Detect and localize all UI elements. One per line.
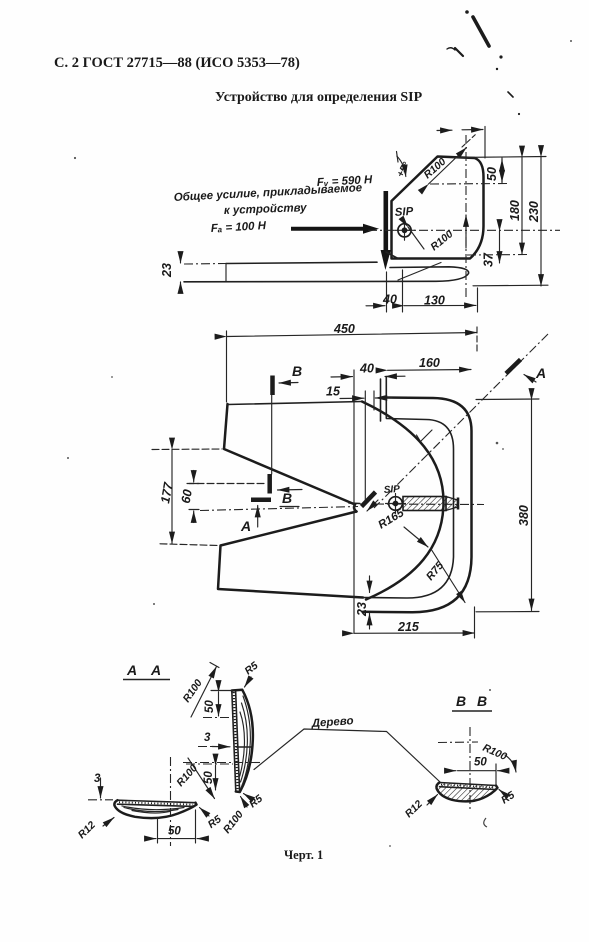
svg-text:В: В (477, 693, 487, 709)
dimension 215 (354, 620, 475, 634)
Derevo leader lines (254, 729, 440, 782)
svg-text:50: 50 (474, 757, 487, 769)
380 top extension (476, 398, 539, 401)
section A trace thick bar (top right) (506, 360, 521, 374)
svg-text:А: А (150, 662, 161, 678)
svg-text:Устройство для определения SIP: Устройство для определения SIP (215, 90, 423, 105)
svg-text:A: A (240, 518, 251, 534)
seat plate bottom edge (184, 267, 469, 282)
dimension 23 (plan) (355, 576, 370, 629)
215 right extension (474, 607, 476, 638)
extension verticals for 40/130 (386, 272, 388, 312)
force bar foot (386, 252, 398, 259)
extension dash y=255 (467, 254, 528, 257)
section B arrow bottom (278, 489, 303, 492)
svg-text:215: 215 (397, 620, 420, 634)
177 extension dashes (152, 448, 222, 451)
+5 degree tick (397, 152, 399, 163)
svg-text:23: 23 (160, 263, 174, 278)
R100 upper radius line (429, 148, 467, 185)
450 left extension (226, 331, 228, 402)
dimension 180 (508, 158, 522, 255)
svg-text:40: 40 (382, 293, 397, 307)
SIP symbol (plan) (386, 494, 406, 514)
dimension 50 lower (A-A) (203, 766, 216, 791)
svg-text:SIP: SIP (383, 484, 400, 496)
arrow at trace end near SIP (367, 500, 378, 511)
R75 leader arrow (431, 549, 465, 603)
svg-text:130: 130 (424, 294, 445, 308)
section A-A trace dash-dot diagonal (374, 334, 548, 508)
R165 leader arrow (404, 527, 428, 547)
section A arrow left (up) (257, 506, 259, 528)
R165 front arc (362, 402, 444, 600)
dimension 15 (plan) (326, 385, 392, 399)
extension vertical x=374 (373, 391, 375, 410)
svg-text:160: 160 (419, 356, 440, 370)
dimension 130 (404, 304, 476, 306)
svg-text:А: А (535, 365, 546, 381)
dimension 60 (179, 471, 199, 523)
dimension 23 (plate thickness) (160, 252, 181, 293)
section B thick bar top (270, 376, 275, 396)
hatched pad (403, 497, 458, 511)
extension vertical x=365.3 (364, 391, 366, 500)
svg-text:В: В (292, 363, 302, 379)
section A view arrow (top right) (524, 375, 536, 383)
dimension 40 (plan) (331, 362, 405, 378)
R100 radius line lower-left (A-A) (188, 758, 215, 799)
construction lines (B-B) (469, 727, 471, 812)
force bar arrowhead down (381, 250, 391, 270)
centre line through SIP (side view) (368, 229, 560, 231)
seat lens section (A-A) (114, 800, 196, 818)
svg-text:50: 50 (203, 771, 215, 784)
notch tick (349, 502, 360, 505)
check tick on trace (417, 430, 433, 442)
+5 degree arc with arrow (397, 156, 406, 177)
backrest outline (392, 157, 484, 259)
dimension 50 (B-B) (445, 757, 507, 771)
small up arrow on centre line (465, 215, 467, 248)
dimension 50 (top drawing) (485, 158, 502, 184)
svg-text:380: 380 (517, 505, 531, 526)
section B thick bar bottom (267, 474, 272, 494)
50 upper extensions (211, 690, 232, 692)
svg-text:180: 180 (508, 200, 522, 221)
section A trace thick bar near SIP (362, 492, 376, 507)
dimension 230 (527, 157, 541, 286)
unlabeled arrows above top edge (437, 129, 452, 131)
R100 radius line upper (A-A) (191, 667, 217, 718)
SIP symbol (side view) (395, 220, 415, 240)
450 right extension (476, 327, 478, 352)
V notch tip (354, 505, 356, 512)
plan top edge left part (228, 402, 363, 405)
scan artifact diagonal top right (447, 10, 520, 115)
dimension 177 (158, 450, 176, 544)
seat plate top edge (226, 262, 377, 263)
60 extension dash top (187, 483, 267, 485)
svg-text:А: А (126, 662, 137, 678)
svg-text:В: В (456, 693, 466, 709)
svg-text:SIP: SIP (394, 206, 414, 219)
horizontal dash-dot through SIP (plan) (200, 507, 358, 511)
R100 arc arrow (B-B) (505, 755, 516, 772)
plan outline left lower edge (218, 512, 363, 598)
svg-text:450: 450 (333, 322, 355, 336)
dimension 50 upper (A-A) (204, 692, 219, 716)
long extension vertical x=354 (353, 370, 355, 633)
svg-text:50: 50 (485, 167, 499, 181)
force bar Fv vertical (383, 191, 388, 251)
dimension 160 (388, 356, 472, 370)
svg-text:Черт. 1: Черт. 1 (284, 848, 323, 862)
extension dashed line y=184 (430, 183, 508, 186)
svg-text:230: 230 (527, 201, 541, 223)
section B trace line (271, 395, 273, 474)
section B arrow top (279, 382, 298, 385)
outer bottom edge right (363, 398, 472, 613)
380 bottom extension (476, 611, 539, 613)
seat plate left end (225, 264, 227, 282)
seat plate top edge extension dash (184, 263, 226, 266)
dimension 37 (482, 231, 500, 267)
force arrow Fa horizontal (291, 227, 364, 231)
svg-text:В: В (282, 490, 292, 506)
vertical centre dash line x=466 (465, 135, 467, 299)
right side extension line top (453, 157, 546, 158)
svg-text:60: 60 (179, 488, 195, 504)
inner bottom edge right (363, 419, 454, 599)
extension line y=285.5 (473, 284, 548, 287)
dimension 40 (top drawing) (366, 305, 385, 307)
backrest lens section (A-A) (232, 690, 253, 792)
svg-text:50: 50 (168, 826, 181, 838)
dimension 450 (227, 322, 478, 337)
R100 extension dashes above corner (462, 134, 476, 147)
plan outline left upper edge (224, 404, 355, 505)
svg-text:40: 40 (359, 362, 374, 376)
svg-text:23: 23 (355, 602, 369, 617)
svg-text:50: 50 (204, 700, 216, 713)
svg-text:15: 15 (326, 385, 341, 399)
section A thick bar left (251, 498, 271, 503)
slot edge verticals (380, 379, 382, 421)
scan specks (67, 40, 572, 847)
svg-text:3: 3 (204, 732, 211, 744)
seat plate right end inner line (398, 263, 441, 281)
svg-text:С. 2 ГОСТ 27715—88 (ИСО 5353—7: С. 2 ГОСТ 27715—88 (ИСО 5353—78) (54, 55, 300, 71)
R100 lower radius line (408, 227, 424, 249)
dimension 50 (A-A seat bottom) (146, 826, 207, 839)
short vertical ext at x=485 (484, 127, 486, 159)
dimension 380 (517, 400, 532, 611)
construction dash cross (170, 757, 172, 846)
seat lens section (B-B) (436, 783, 497, 802)
